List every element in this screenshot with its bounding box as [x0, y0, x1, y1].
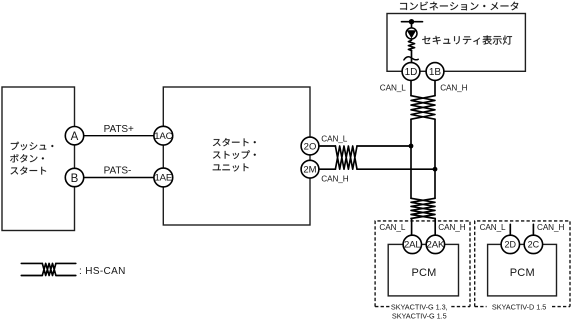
svg-text:CAN_L: CAN_L [380, 83, 406, 92]
junction dot CAN_H [433, 167, 438, 172]
svg-text:2O: 2O [304, 141, 317, 152]
wire twist to CAN_L junction [357, 145, 411, 147]
svg-text:CAN_H: CAN_H [438, 223, 465, 232]
terminal 1AE circle [154, 168, 173, 187]
combination meter title (katakana) [400, 2, 518, 11]
svg-text:CAN_H: CAN_H [321, 175, 348, 184]
terminal B circle [65, 168, 83, 186]
twisted pair top [411, 96, 435, 120]
svg-text:SKYACTIV-G 1.5: SKYACTIV-G 1.5 [392, 312, 447, 321]
terminal A circle [65, 127, 83, 145]
wire 2M to twist [310, 168, 335, 170]
terminal 1AC circle [154, 126, 173, 145]
svg-text:CAN_L: CAN_L [480, 223, 506, 232]
svg-text:CAN_L: CAN_L [321, 134, 347, 143]
svg-text:PATS-: PATS- [104, 166, 132, 177]
dashed enclosure SKYACTIV-D [475, 221, 570, 307]
circuit-continues squiggle [404, 57, 418, 60]
security indicator lamp label (japanese) [422, 35, 512, 44]
wire PATS- [75, 177, 164, 179]
terminal 2AL circle [403, 235, 421, 253]
start stop unit label line 1 [213, 138, 256, 146]
lamp power feed bar [402, 21, 423, 23]
svg-text:2AL: 2AL [404, 240, 421, 251]
wire feed bar to lamp [411, 22, 413, 28]
svg-text:CAN_L: CAN_L [379, 223, 405, 232]
svg-text:SKYACTIV-G 1.3,: SKYACTIV-G 1.3, [391, 302, 448, 311]
svg-text:PATS+: PATS+ [104, 124, 134, 135]
svg-text:SKYACTIV-D 1.5: SKYACTIV-D 1.5 [492, 302, 546, 311]
wire twist to 2AK [434, 219, 436, 236]
start stop unit label line 2 [213, 150, 256, 159]
svg-text:1AC: 1AC [154, 131, 172, 142]
push button start label line 1 [11, 142, 54, 151]
start stop unit label line 3 [213, 163, 249, 171]
svg-text:PCM: PCM [510, 267, 535, 279]
junction dot CAN_L [409, 144, 414, 149]
terminal 1D circle [402, 63, 420, 81]
wire resistor to 1D [411, 50, 413, 63]
svg-text:CAN_H: CAN_H [440, 83, 467, 92]
svg-text:: HS-CAN: : HS-CAN [79, 266, 126, 277]
wire 1D down to twist [410, 80, 412, 95]
svg-text:1B: 1B [429, 67, 442, 78]
terminal 2D circle [501, 235, 519, 253]
stub wire above 2D [509, 224, 511, 235]
terminal 2AK circle [426, 235, 444, 253]
combination meter box [387, 14, 525, 72]
twisted pair middle [335, 146, 357, 169]
terminal 2M circle [301, 160, 319, 178]
wire twist to CAN_H junction [357, 168, 435, 170]
twisted pair bottom [411, 198, 435, 218]
wire 1B down to twist [434, 80, 436, 95]
svg-text:CAN_H: CAN_H [537, 223, 564, 232]
security indicator lamp [406, 28, 417, 39]
svg-text:1D: 1D [405, 67, 418, 78]
svg-text:2AK: 2AK [427, 240, 445, 251]
dashed enclosure SKYACTIV-G [375, 221, 470, 307]
svg-text:A: A [71, 131, 79, 143]
PCM box SKYACTIV-G [388, 244, 458, 296]
CAN_L bus rail [410, 119, 412, 198]
svg-text:2M: 2M [303, 165, 316, 176]
junction dot lamp feed [409, 19, 414, 24]
wire 2O to twist [310, 145, 335, 147]
wire PATS+ [75, 135, 164, 137]
svg-text:1AE: 1AE [154, 173, 172, 184]
stub wire above 2C [532, 224, 534, 235]
terminal 1B circle [426, 63, 444, 81]
terminal 2O circle [301, 137, 319, 155]
push button start label line 3 [11, 166, 47, 174]
svg-text:2D: 2D [505, 240, 517, 250]
svg-text:B: B [71, 173, 79, 185]
start stop unit box [163, 87, 310, 225]
terminal 2C circle [524, 235, 542, 253]
HS-CAN legend symbol [21, 263, 76, 275]
PCM box SKYACTIV-D [488, 244, 557, 296]
svg-text:2C: 2C [528, 240, 540, 250]
push button start label line 2 [10, 154, 44, 162]
resistor in meter [408, 39, 414, 51]
push button start unit box [2, 87, 75, 231]
svg-text:PCM: PCM [411, 267, 436, 279]
wire twist to 2AL [411, 219, 413, 236]
CAN_H bus rail [434, 119, 436, 198]
